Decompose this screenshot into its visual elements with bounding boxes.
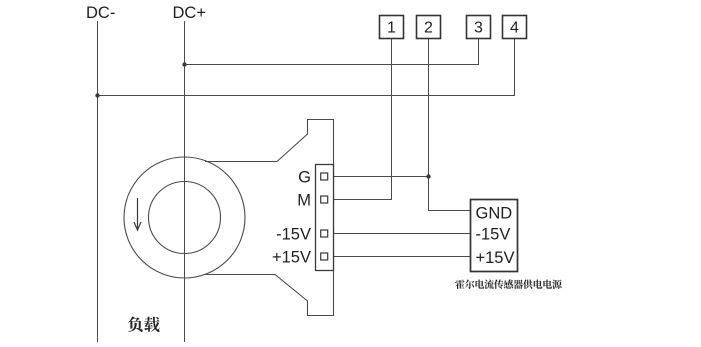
svg-text:DC-: DC- — [86, 4, 115, 22]
pin G square — [321, 173, 328, 180]
svg-text:DC+: DC+ — [173, 4, 206, 22]
terminal box 2 — [417, 16, 441, 39]
power supply box — [471, 200, 518, 272]
wire terminal 2 to GND — [429, 39, 471, 211]
wire DC+ to terminal 3 — [185, 39, 479, 65]
wire DC+ vertical — [184, 21, 186, 342]
wire DC- vertical — [97, 21, 99, 342]
wire DC- to terminal 4 — [98, 39, 515, 96]
terminal box 3 — [467, 16, 491, 39]
svg-text:4: 4 — [510, 20, 519, 37]
pin +15V square — [321, 253, 328, 260]
svg-text:+15V: +15V — [476, 249, 515, 267]
svg-text:1: 1 — [387, 20, 396, 37]
current direction arrow — [134, 198, 141, 230]
node junction DC- — [95, 93, 99, 97]
svg-text:2: 2 — [424, 20, 433, 37]
wire pin -15V to supply — [328, 233, 471, 235]
pin -15V square — [321, 230, 328, 237]
label load (fu zai) — [128, 316, 160, 331]
node junction DC+ — [182, 62, 186, 66]
pin M square — [321, 196, 328, 203]
sensor core outer ring — [124, 157, 245, 278]
svg-text:GND: GND — [476, 205, 513, 223]
svg-text:3: 3 — [474, 20, 483, 37]
wire terminal 1 to pin M — [328, 39, 392, 200]
terminal box 1 — [380, 16, 404, 39]
wire pin G to node — [328, 176, 429, 178]
wire pin +15V to supply — [328, 256, 471, 258]
pin header outline — [316, 165, 334, 271]
svg-text:-15V: -15V — [476, 226, 511, 244]
sensor core inner ring — [149, 182, 221, 254]
svg-text:-15V: -15V — [276, 226, 311, 244]
terminal box 4 — [503, 16, 527, 39]
node junction G / terminal 2 — [426, 174, 430, 178]
svg-text:G: G — [298, 169, 311, 187]
svg-text:+15V: +15V — [272, 249, 311, 267]
sensor body outline U1 — [205, 120, 334, 316]
svg-text:M: M — [297, 192, 311, 210]
caption hall current sensor supply — [455, 279, 561, 288]
